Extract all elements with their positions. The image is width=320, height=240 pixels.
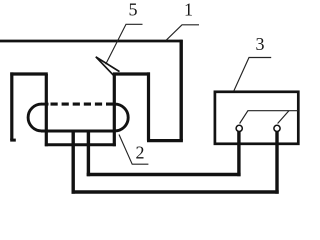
wire: riser to terminal T1: [237, 132, 240, 177]
coil C2: top edge solid start: [41, 103, 49, 106]
left window right edge / centre limb left side: [45, 74, 48, 146]
box 3 internal slant from T1: [240, 111, 248, 124]
box 3 internal slant from T2: [278, 111, 289, 124]
box 3 internal bus line: [248, 110, 299, 112]
coil C2: right end cap arc: [115, 104, 128, 131]
left window left edge: [10, 72, 13, 140]
label 5 leader line: [106, 24, 143, 64]
terminal T1 circle: [236, 125, 242, 131]
terminal T2 circle: [274, 125, 280, 131]
wire: riser to terminal T2: [275, 132, 278, 194]
box 3 outline: [215, 92, 298, 144]
label 1 leader line: [166, 25, 199, 40]
core right edge: [179, 40, 182, 141]
svg-text:2: 2: [136, 143, 145, 163]
coil C2: top edge dashed (hidden side): [51, 103, 115, 106]
svg-text:1: 1: [184, 0, 193, 19]
centre limb bottom edge: [45, 143, 116, 146]
right window left edge / centre limb right side: [113, 74, 116, 146]
core top edge (part 1 outline): [0, 40, 183, 43]
left window top edge: [10, 72, 48, 75]
label 2 leader line: [119, 135, 148, 165]
svg-text:3: 3: [256, 34, 265, 54]
svg-text:5: 5: [129, 0, 138, 19]
right window right edge: [147, 72, 150, 140]
wire: bottom run to right: [72, 190, 279, 193]
label 5 arrowhead sliver: [96, 57, 120, 76]
left window bottom stub: [10, 139, 16, 142]
wire: middle run to right: [87, 173, 241, 176]
wire: coil lead A down: [71, 131, 74, 194]
wire: coil lead B down: [87, 131, 90, 176]
right window top edge: [113, 72, 150, 75]
coil C2: bottom edge: [41, 129, 115, 132]
core bottom-right foot: [147, 139, 183, 142]
coil C2: left end cap arc: [28, 104, 41, 131]
label 3 leader line: [234, 58, 271, 92]
